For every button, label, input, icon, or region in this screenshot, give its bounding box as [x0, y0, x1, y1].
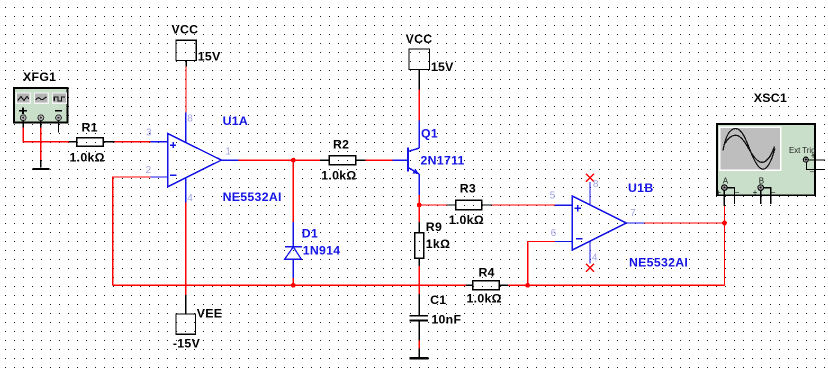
svg-text:XSC1: XSC1: [754, 91, 787, 105]
svg-text:−: −: [735, 188, 740, 197]
svg-text:XFG1: XFG1: [23, 70, 56, 84]
ground (XFG1): [33, 160, 50, 170]
svg-text:B: B: [759, 177, 764, 186]
resistor R2: [320, 138, 366, 183]
diode D1: [285, 222, 341, 278]
svg-text:15V: 15V: [198, 50, 221, 64]
svg-text:1.0kΩ: 1.0kΩ: [70, 151, 105, 165]
icon triangle wave: [18, 97, 29, 101]
wire U1B output right: [644, 222, 724, 224]
pin 8 stub: [185, 113, 187, 144]
wire scope A down to bottom rail: [724, 206, 726, 285]
svg-text:NE5532AI: NE5532AI: [223, 190, 282, 204]
icon square wave: [54, 97, 65, 101]
wire D1 to bottom rail: [292, 278, 294, 285]
svg-text:2: 2: [146, 165, 152, 176]
wire U1A pin2 feedback left/down: [113, 177, 150, 285]
wire XFG+ down and right to R1: [23, 127, 69, 141]
icon sine wave: [36, 97, 47, 100]
svg-text:VCC: VCC: [172, 23, 199, 37]
VEE supply: [173, 202, 222, 350]
svg-text:+: +: [811, 152, 816, 161]
svg-text:−: −: [810, 168, 815, 177]
VCC supply 2: [406, 32, 455, 90]
resistor R9: [415, 220, 451, 266]
resistor R4: [466, 265, 508, 305]
wire U1A output to R2: [239, 159, 320, 161]
wire XFG common down to ground: [40, 127, 42, 160]
capacitor C1: [409, 293, 461, 340]
Ext Trig terminal: [803, 157, 808, 162]
node D1/bottom rail junction: [291, 283, 296, 288]
resistor R1: [69, 121, 115, 165]
wire VCC2 to Q1 collector: [418, 90, 420, 121]
node emitter junction: [417, 203, 422, 208]
svg-text:1.0kΩ: 1.0kΩ: [321, 168, 356, 182]
svg-text:+: +: [716, 188, 721, 197]
scope trace small: [725, 135, 774, 162]
pin 3 stub: [151, 141, 168, 143]
svg-text:VEE: VEE: [197, 307, 223, 321]
svg-text:U1A: U1A: [223, 114, 249, 128]
svg-text:D1: D1: [302, 227, 318, 241]
svg-text:+: +: [753, 188, 758, 197]
svg-text:R1: R1: [82, 121, 98, 135]
wire R4 to right rail: [508, 284, 725, 286]
wire junction up to U1B pin6: [528, 242, 555, 286]
svg-text:R3: R3: [460, 182, 476, 196]
svg-text:C1: C1: [430, 293, 446, 307]
pin 6 stub: [555, 241, 572, 243]
X mark pin 4: [586, 264, 594, 272]
node R4/U1B- junction: [525, 283, 530, 288]
pin 7 output stub: [626, 222, 644, 224]
wire Q1 emitter down: [418, 195, 420, 205]
minus terminal mark: [55, 110, 62, 112]
svg-text:7: 7: [630, 208, 636, 219]
wire VCC1 to U1A pin8: [185, 67, 187, 113]
pin 8 stub: [589, 182, 591, 205]
svg-text:A: A: [723, 177, 729, 186]
pin 1 output stub: [221, 159, 238, 161]
plus terminal mark: [19, 108, 27, 114]
pin 2 stub: [150, 176, 167, 178]
wire emitter junction down to R9: [418, 205, 420, 222]
svg-text:5: 5: [550, 191, 556, 202]
wire R9 to C1: [418, 266, 420, 294]
svg-text:−: −: [771, 188, 776, 197]
wire bottom feedback rail: [113, 284, 466, 286]
scope trace big: [723, 128, 775, 169]
XFG1 body: [14, 88, 68, 133]
svg-text:R2: R2: [333, 138, 349, 152]
pin 4 stub: [589, 241, 591, 263]
wire C1 to ground: [418, 340, 420, 348]
svg-text:8: 8: [187, 114, 193, 125]
XSC1 body: [716, 124, 825, 206]
svg-text:3: 3: [146, 128, 152, 139]
transistor Q1: [393, 120, 465, 195]
wire R2 to Q1 base: [365, 159, 392, 161]
B terminal leads: [760, 190, 762, 204]
wire junction down to D1: [292, 160, 294, 222]
terminal pads: [20, 115, 26, 121]
svg-text:VCC: VCC: [406, 32, 433, 46]
svg-text:Q1: Q1: [421, 126, 438, 140]
X mark pin 8: [586, 174, 594, 182]
svg-text:15V: 15V: [431, 60, 454, 74]
svg-text:NE5532AI: NE5532AI: [629, 255, 688, 269]
svg-text:1N914: 1N914: [303, 244, 341, 258]
svg-text:R4: R4: [479, 265, 495, 279]
op-amp U1B: [550, 174, 689, 272]
svg-text:1.0kΩ: 1.0kΩ: [467, 292, 502, 306]
svg-text:6: 6: [551, 228, 557, 239]
ground (C1): [410, 348, 429, 359]
node output/scope junction: [722, 221, 727, 226]
svg-text:R9: R9: [426, 220, 442, 234]
svg-text:2N1711: 2N1711: [421, 154, 465, 168]
svg-text:4: 4: [592, 252, 598, 263]
svg-text:8: 8: [593, 179, 599, 190]
VCC supply 1: [172, 23, 222, 67]
svg-text:1kΩ: 1kΩ: [426, 237, 450, 251]
terminal stubs: [23, 121, 58, 133]
pin 4 stub: [185, 178, 187, 203]
resistor R3: [447, 182, 492, 227]
channel A terminal: [722, 185, 728, 191]
svg-text:4: 4: [187, 193, 193, 204]
pin 5 stub: [555, 204, 572, 206]
svg-text:1.0kΩ: 1.0kΩ: [449, 213, 484, 227]
A terminal leads: [723, 190, 725, 205]
wire emitter to R3: [419, 204, 447, 206]
node output/D1 junction: [291, 158, 296, 163]
svg-text:10nF: 10nF: [431, 312, 461, 326]
channel B terminal: [758, 185, 764, 191]
svg-text:U1B: U1B: [628, 181, 654, 195]
wire R1 to U1A pin3: [115, 141, 151, 143]
op-amp U1A: [146, 113, 282, 205]
svg-text:1: 1: [225, 147, 231, 158]
svg-text:-15V: -15V: [173, 337, 201, 351]
wire R3 to U1B pin5: [492, 204, 555, 206]
